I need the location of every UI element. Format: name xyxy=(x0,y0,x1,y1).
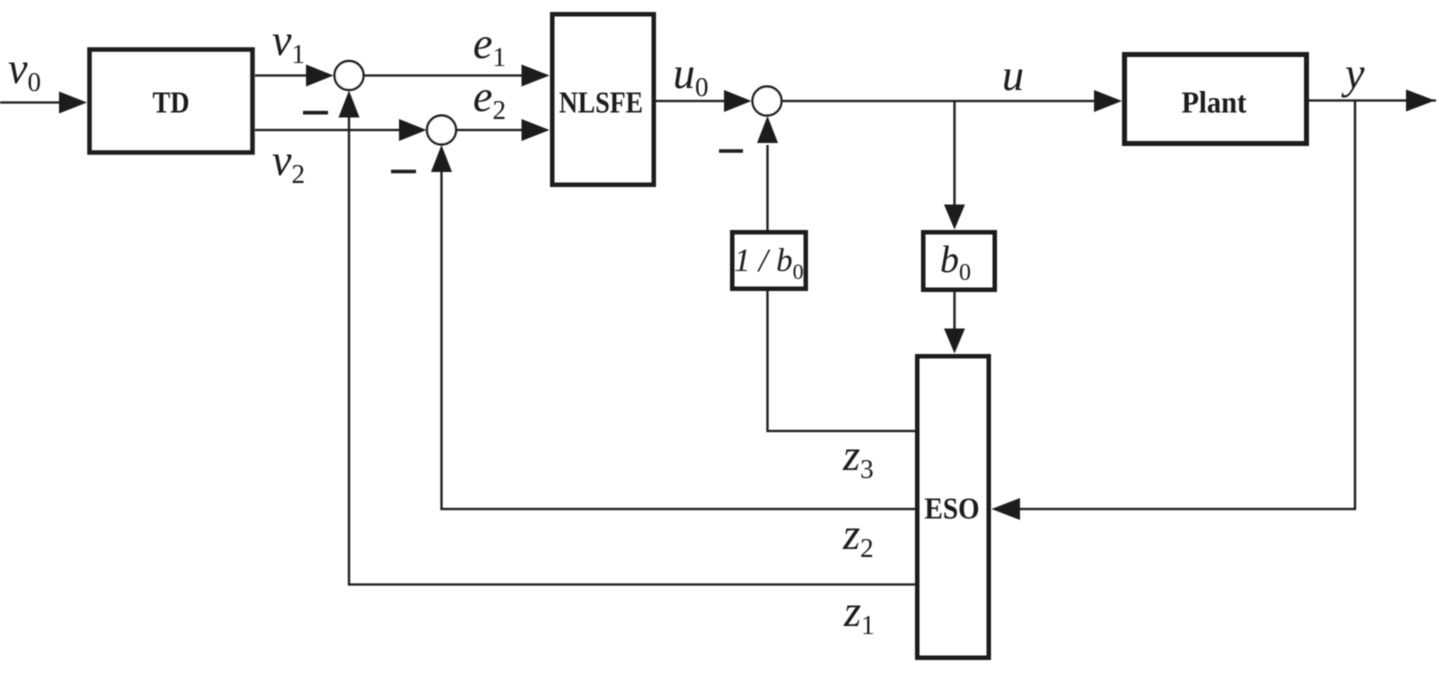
arrowhead into S2 bottom xyxy=(431,145,452,172)
arrowhead e2 into NLSFE xyxy=(522,119,550,141)
wire z2 ESO to S2 xyxy=(442,171,916,509)
arrowhead y output xyxy=(1406,90,1435,112)
wire u S3 to Plant xyxy=(782,100,1097,102)
wire z1 ESO to S1 xyxy=(349,116,915,585)
wire b0 down to ESO xyxy=(953,292,955,330)
wire z3 ESO to 1/b0 xyxy=(768,291,916,431)
wire 1/b0 up to S3 xyxy=(766,145,768,232)
svg-text:NLSFE: NLSFE xyxy=(559,85,643,120)
svg-text:ESO: ESO xyxy=(925,491,980,526)
block Plant xyxy=(1125,55,1307,144)
arrowhead u into Plant xyxy=(1094,90,1122,112)
wire e1 S1 to NLSFE xyxy=(364,74,525,76)
wire e2 S2 to NLSFE xyxy=(456,129,524,131)
arrowhead into ESO top xyxy=(944,329,965,354)
block ESO xyxy=(917,356,989,658)
arrowhead v1 into S1 xyxy=(306,65,334,87)
svg-text:y: y xyxy=(1341,49,1365,98)
wire u0 NLSFE to S3 xyxy=(656,100,726,102)
minus sign at S1 xyxy=(303,111,328,115)
minus sign at S3 xyxy=(719,149,743,153)
block 1/b0 xyxy=(732,232,806,289)
summing junction S2 xyxy=(427,116,456,145)
minus sign at S2 xyxy=(391,170,416,174)
arrowhead into b0 xyxy=(944,205,965,230)
block TD xyxy=(90,50,253,153)
svg-text:Plant: Plant xyxy=(1182,85,1248,120)
summing junction S1 xyxy=(335,61,364,90)
wire v1 TD to S1 xyxy=(255,74,308,76)
wire v0 input xyxy=(0,101,62,103)
summing junction S3 xyxy=(753,87,782,116)
wire y feedback to ESO xyxy=(1020,101,1355,509)
svg-text:u: u xyxy=(1002,51,1024,100)
wire y Plant output xyxy=(1309,99,1436,101)
wire u branch down to b0 xyxy=(953,101,955,207)
block b0 xyxy=(923,232,995,290)
arrowhead into ESO right xyxy=(992,498,1021,520)
arrowhead e1 into NLSFE xyxy=(522,65,550,87)
arrowhead into S3 bottom xyxy=(757,116,778,143)
arrowhead v2 into S2 xyxy=(399,119,427,141)
arrowhead v0 into TD xyxy=(59,92,87,114)
svg-text:TD: TD xyxy=(153,85,190,120)
block NLSFE xyxy=(552,14,654,185)
arrowhead u0 into S3 xyxy=(724,90,752,112)
wire v2 TD to S2 xyxy=(255,129,401,131)
arrowhead into S1 bottom xyxy=(339,91,360,118)
